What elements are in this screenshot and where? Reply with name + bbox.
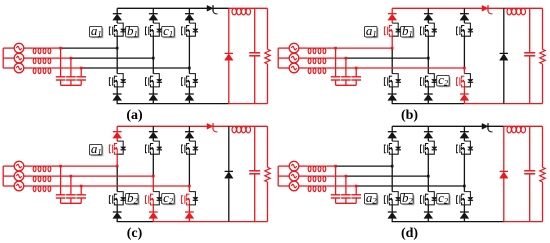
body diode of b1 (a)	[153, 23, 162, 36]
wire: leg 3 phase-to-bottom-switch (a)	[188, 68, 190, 74]
wire: leg 1 bottom stub (d)	[391, 218, 393, 221]
node: phase a to leg 1 (d)	[391, 165, 394, 168]
freewheeling diode Df (b)	[500, 8, 508, 103]
node: filter-cap tap phase b (b)	[345, 57, 348, 60]
svg-text:c2: c2	[163, 190, 174, 206]
wire: leg 1 source-to-phase (a)	[116, 36, 118, 48]
wire source-to-inductor phase a (c)	[24, 165, 33, 167]
dc-link inductor Ldc (b)	[507, 8, 526, 15]
MOSFET b1 (b)	[421, 25, 429, 37]
svg-text:a1: a1	[91, 23, 102, 39]
body diode of a1 (d)	[392, 141, 401, 154]
svg-text:(a): (a)	[126, 108, 143, 123]
wire: leg 1 bottom stub (c)	[116, 218, 118, 221]
wire: leg 2 phase-to-bottom-switch (d)	[427, 176, 429, 192]
wire phase b (c)	[52, 175, 154, 177]
wire phase c (b)	[327, 67, 465, 69]
wire: leg 1 phase-to-bottom-switch (d)	[391, 166, 393, 192]
series diode of switch a1 (c)	[113, 132, 122, 138]
wire source-to-inductor phase c (b)	[299, 67, 308, 69]
wire: leg 1 source-to-phase (c)	[116, 154, 118, 166]
wire: leg 2 top stub (b)	[427, 8, 429, 13]
wire: diode-to-mosfet stub b1 (a)	[152, 20, 154, 23]
svg-text:b2: b2	[402, 190, 414, 206]
wire phase c (d)	[327, 185, 465, 187]
wire: leg 2 bottom stub (a)	[152, 100, 154, 103]
MOSFET b1 (c)	[146, 143, 154, 155]
series diode of switch c1 (a)	[185, 14, 194, 20]
inductor Lb (a)	[32, 58, 51, 64]
series diode of switch b1 (a)	[149, 14, 158, 20]
series diode of switch a2 (b)	[388, 94, 397, 100]
node: filter-cap tap phase b (a)	[70, 57, 73, 60]
dc-link inductor Ldc (d)	[507, 126, 526, 133]
body diode of c1 (b)	[464, 23, 473, 36]
node: phase c to leg 3 (c)	[188, 185, 191, 188]
wire phase a (d)	[327, 165, 393, 167]
caption (d)	[401, 226, 418, 241]
body diode of c1 (c)	[189, 141, 198, 154]
load resistor R (b)	[540, 8, 545, 103]
wire source-to-inductor phase c (c)	[24, 185, 33, 187]
series diode of switch c2 (a)	[185, 94, 194, 100]
label box c1 (a)	[162, 23, 175, 39]
caption (b)	[401, 108, 418, 123]
wire: leg 3 top stub (a)	[188, 8, 190, 13]
svg-text:a1: a1	[366, 23, 377, 39]
load resistor R (a)	[265, 8, 270, 103]
body diode of b1 (b)	[428, 23, 437, 36]
wire: leg 1 phase-to-bottom-switch (b)	[391, 48, 393, 74]
body diode of b2 (d)	[428, 192, 437, 205]
body diode of b2 (c)	[153, 192, 162, 205]
MOSFET a1 (a)	[109, 25, 117, 37]
MOSFET c2 (d)	[457, 194, 465, 206]
inductor Lc (a)	[32, 68, 51, 74]
body diode of a2 (a)	[117, 74, 126, 87]
AC source vb (b)	[289, 53, 299, 63]
wire: leg 2 phase-to-bottom-switch (c)	[152, 176, 154, 192]
node: filter-cap tap phase b (d)	[345, 175, 348, 178]
AC source vc (c)	[14, 181, 24, 191]
filter capacitor Cb (b)	[341, 58, 351, 85]
wire: mosfet-to-diode stub a2 (b)	[391, 87, 393, 94]
output capacitor Co (a)	[249, 8, 260, 103]
series diode of switch a2 (d)	[388, 212, 397, 218]
wire: filter capacitor common node (b)	[336, 84, 357, 86]
inductor Lc (b)	[307, 68, 326, 74]
node: phase a to leg 1 (b)	[391, 47, 394, 50]
output capacitor Co (d)	[524, 126, 535, 221]
load resistor R (d)	[540, 126, 545, 221]
wire: leg 3 source-to-phase (a)	[188, 36, 190, 68]
wire: mosfet-to-diode stub c2 (d)	[463, 205, 465, 212]
wire: negative dc rail (a)	[117, 103, 268, 105]
MOSFET c1 (a)	[182, 25, 190, 37]
body diode of c2 (a)	[189, 74, 198, 87]
inductor Lb (d)	[307, 176, 326, 182]
wire: negative dc rail (d)	[392, 221, 543, 223]
node: phase b to leg 2 (b)	[427, 57, 430, 60]
body diode of b2 (b)	[428, 74, 437, 87]
MOSFET a1 (d)	[384, 143, 392, 155]
node: filter-cap tap phase a (a)	[59, 47, 62, 50]
quadrant (d) AC sources bus wire	[278, 166, 289, 186]
wire source-to-inductor phase b (a)	[24, 57, 33, 59]
wire: leg 2 source-to-phase (b)	[427, 36, 429, 58]
filter capacitor Cc (a)	[76, 68, 86, 85]
wire: leg 1 top stub (a)	[116, 8, 118, 13]
wire: leg 1 top stub (b)	[391, 8, 393, 13]
wire: positive dc rail (a)	[117, 7, 267, 9]
body diode of c2 (d)	[464, 192, 473, 205]
AC source vc (a)	[14, 63, 24, 73]
MOSFET c1 (b)	[457, 25, 465, 37]
wire: filter capacitor common node (d)	[336, 202, 357, 204]
svg-text:(c): (c)	[127, 226, 143, 241]
AC source vb (d)	[289, 171, 299, 181]
wire: mosfet-to-diode stub a2 (d)	[391, 205, 393, 212]
node: phase c to leg 3 (a)	[188, 67, 191, 70]
wire: leg 2 phase-to-bottom-switch (b)	[427, 58, 429, 74]
label box a1 (c)	[90, 141, 103, 157]
quadrant (b) AC sources bus wire	[278, 48, 289, 68]
load resistor R (c)	[265, 126, 270, 221]
wire source-to-inductor phase a (b)	[299, 47, 308, 49]
wire: diode-to-mosfet stub b1 (c)	[152, 138, 154, 141]
wire: mosfet-to-diode stub b2 (d)	[427, 205, 429, 212]
wire: diode-to-mosfet stub b1 (b)	[427, 20, 429, 23]
wire: mosfet-to-diode stub a2 (c)	[116, 205, 118, 212]
dc-side series diode D (c)	[207, 123, 218, 132]
MOSFET b2 (b)	[421, 76, 429, 88]
caption (a)	[126, 108, 143, 123]
wire: leg 2 bottom stub (c)	[152, 218, 154, 221]
MOSFET c2 (b)	[457, 76, 465, 88]
inductor Lc (d)	[307, 186, 326, 192]
wire: positive dc rail (d)	[392, 125, 542, 127]
inductor La (d)	[307, 166, 326, 172]
wire: leg 3 source-to-phase (b)	[463, 36, 465, 68]
node: phase c to leg 3 (d)	[463, 185, 466, 188]
wire: leg 3 phase-to-bottom-switch (c)	[188, 186, 190, 192]
wire: leg 1 phase-to-bottom-switch (c)	[116, 166, 118, 192]
wire: diode-to-mosfet stub a1 (c)	[116, 138, 118, 141]
wire: mosfet-to-diode stub b2 (c)	[152, 205, 154, 212]
freewheeling diode Df (a)	[225, 8, 233, 103]
wire: mosfet-to-diode stub c2 (c)	[188, 205, 190, 212]
inductor La (b)	[307, 48, 326, 54]
svg-text:b1: b1	[127, 23, 138, 39]
wire: leg 2 top stub (c)	[152, 126, 154, 131]
wire: leg 1 top stub (c)	[116, 126, 118, 131]
series diode of switch c1 (d)	[460, 132, 469, 138]
body diode of a1 (b)	[392, 23, 401, 36]
series diode of switch b2 (a)	[149, 94, 158, 100]
node: filter-cap tap phase c (b)	[355, 67, 358, 70]
filter capacitor Ca (a)	[56, 48, 66, 85]
wire: leg 3 bottom stub (a)	[188, 100, 190, 103]
wire: positive dc rail (b)	[392, 7, 542, 9]
wire: diode-to-mosfet stub c1 (c)	[188, 138, 190, 141]
wire: mosfet-to-diode stub b2 (a)	[152, 87, 154, 94]
dc-side series diode D (d)	[482, 123, 493, 132]
series diode of switch a2 (a)	[113, 94, 122, 100]
wire: leg 2 bottom stub (d)	[427, 218, 429, 221]
filter capacitor Cb (d)	[341, 176, 351, 203]
label box a2 (d)	[365, 190, 378, 206]
wire: leg 2 phase-to-bottom-switch (a)	[152, 58, 154, 74]
wire phase b (a)	[52, 57, 154, 59]
node: filter-cap tap phase c (d)	[355, 185, 358, 188]
wire: diode-to-mosfet stub c1 (a)	[188, 20, 190, 23]
node: filter-cap tap phase b (c)	[70, 175, 73, 178]
wire: diode-to-mosfet stub b1 (d)	[427, 138, 429, 141]
wire: leg 2 top stub (d)	[427, 126, 429, 131]
dc-link inductor Ldc (c)	[232, 126, 251, 133]
wire: diode-to-mosfet stub a1 (d)	[391, 138, 393, 141]
wire: filter capacitor common node (c)	[61, 202, 82, 204]
wire: negative dc rail (b)	[392, 103, 543, 105]
body diode of c2 (b)	[464, 74, 473, 87]
wire: leg 1 top stub (d)	[391, 126, 393, 131]
inductor Lb (c)	[32, 176, 51, 182]
series diode of switch c2 (c)	[185, 212, 194, 218]
filter capacitor Cc (b)	[351, 68, 361, 85]
series diode of switch b1 (d)	[424, 132, 433, 138]
wire: leg 3 phase-to-bottom-switch (d)	[463, 186, 465, 192]
wire phase a (b)	[327, 47, 393, 49]
wire: leg 3 top stub (c)	[188, 126, 190, 131]
wire source-to-inductor phase b (d)	[299, 175, 308, 177]
label box c2 (b)	[437, 72, 450, 88]
wire: leg 2 source-to-phase (a)	[152, 36, 154, 58]
MOSFET c2 (a)	[182, 76, 190, 88]
MOSFET a2 (a)	[109, 76, 117, 88]
quadrant (a) AC sources bus wire	[3, 48, 14, 68]
wire: diode-to-mosfet stub a1 (a)	[116, 20, 118, 23]
output capacitor Co (c)	[249, 126, 260, 221]
wire phase c (c)	[52, 185, 190, 187]
inductor La (c)	[32, 166, 51, 172]
wire source-to-inductor phase b (c)	[24, 175, 33, 177]
body diode of b1 (d)	[428, 141, 437, 154]
label box b2 (c)	[126, 190, 139, 206]
MOSFET b1 (d)	[421, 143, 429, 155]
MOSFET b2 (c)	[146, 194, 154, 206]
wire phase b (d)	[327, 175, 429, 177]
series diode of switch a1 (d)	[388, 132, 397, 138]
wire: leg 1 phase-to-bottom-switch (a)	[116, 48, 118, 74]
AC source vc (d)	[289, 181, 299, 191]
MOSFET a1 (c)	[109, 143, 117, 155]
node: phase b to leg 2 (c)	[152, 175, 155, 178]
label box a1 (b)	[365, 23, 378, 39]
output capacitor Co (b)	[524, 8, 535, 103]
wire: diode-to-mosfet stub c1 (d)	[463, 138, 465, 141]
body diode of c2 (c)	[189, 192, 198, 205]
dc-side series diode D (b)	[482, 5, 493, 14]
svg-text:c2: c2	[438, 72, 449, 88]
node: phase b to leg 2 (d)	[427, 175, 430, 178]
filter capacitor Cb (a)	[66, 58, 76, 85]
wire phase a (a)	[52, 47, 118, 49]
series diode of switch c1 (b)	[460, 14, 469, 20]
wire phase b (b)	[327, 57, 429, 59]
wire: leg 2 top stub (a)	[152, 8, 154, 13]
filter capacitor Cb (c)	[66, 176, 76, 203]
svg-text:a2: a2	[366, 190, 378, 206]
wire: leg 3 top stub (d)	[463, 126, 465, 131]
wire: mosfet-to-diode stub c2 (a)	[188, 87, 190, 94]
body diode of a1 (c)	[117, 141, 126, 154]
wire source-to-inductor phase a (a)	[24, 47, 33, 49]
wire: leg 3 phase-to-bottom-switch (b)	[463, 68, 465, 74]
label box c2 (c)	[162, 190, 175, 206]
label box b2 (d)	[401, 190, 414, 206]
wire phase c (a)	[52, 67, 190, 69]
node: phase a to leg 1 (c)	[116, 165, 119, 168]
MOSFET a2 (c)	[109, 194, 117, 206]
wire source-to-inductor phase c (a)	[24, 67, 33, 69]
wire: negative dc rail (c)	[117, 221, 268, 223]
wire: leg 3 source-to-phase (d)	[463, 154, 465, 186]
body diode of a2 (d)	[392, 192, 401, 205]
wire: leg 3 source-to-phase (c)	[188, 154, 190, 186]
caption (c)	[127, 226, 143, 241]
label box b1 (b)	[401, 23, 414, 39]
wire: mosfet-to-diode stub a2 (a)	[116, 87, 118, 94]
wire: diode-to-mosfet stub c1 (b)	[463, 20, 465, 23]
series diode of switch c2 (d)	[460, 212, 469, 218]
node: filter-cap tap phase a (b)	[334, 47, 337, 50]
body diode of c1 (a)	[189, 23, 198, 36]
filter capacitor Ca (d)	[331, 166, 341, 203]
series diode of switch b2 (b)	[424, 94, 433, 100]
dc-link inductor Ldc (a)	[232, 8, 251, 15]
series diode of switch b2 (c)	[149, 212, 158, 218]
inductor Lc (c)	[32, 186, 51, 192]
wire: leg 2 source-to-phase (c)	[152, 154, 154, 176]
svg-text:c1: c1	[163, 23, 173, 39]
filter capacitor Cc (d)	[351, 186, 361, 203]
wire: leg 3 bottom stub (d)	[463, 218, 465, 221]
AC source vb (a)	[14, 53, 24, 63]
inductor Lb (b)	[307, 58, 326, 64]
wire: leg 1 bottom stub (b)	[391, 100, 393, 103]
wire: leg 3 bottom stub (c)	[188, 218, 190, 221]
MOSFET c2 (c)	[182, 194, 190, 206]
AC source va (a)	[14, 43, 24, 53]
series diode of switch c2 (b)	[460, 94, 469, 100]
body diode of a2 (c)	[117, 192, 126, 205]
node: phase c to leg 3 (b)	[463, 67, 466, 70]
node: phase a to leg 1 (a)	[116, 47, 119, 50]
svg-text:a1: a1	[91, 141, 102, 157]
node: phase b to leg 2 (a)	[152, 57, 155, 60]
series diode of switch a1 (a)	[113, 14, 122, 20]
wire: leg 1 source-to-phase (b)	[391, 36, 393, 48]
MOSFET a2 (b)	[384, 76, 392, 88]
node: filter-cap tap phase c (a)	[80, 67, 83, 70]
dc-side series diode D (a)	[207, 5, 218, 14]
wire: filter capacitor common node (a)	[61, 84, 82, 86]
body diode of b1 (c)	[153, 141, 162, 154]
AC source vc (b)	[289, 63, 299, 73]
freewheeling diode Df (c)	[225, 126, 233, 221]
body diode of a1 (a)	[117, 23, 126, 36]
wire: diode-to-mosfet stub a1 (b)	[391, 20, 393, 23]
MOSFET a2 (d)	[384, 194, 392, 206]
wire source-to-inductor phase c (d)	[299, 185, 308, 187]
label box c2 (d)	[437, 190, 450, 206]
wire: leg 2 bottom stub (b)	[427, 100, 429, 103]
body diode of b2 (a)	[153, 74, 162, 87]
series diode of switch b1 (b)	[424, 14, 433, 20]
series diode of switch c1 (c)	[185, 132, 194, 138]
AC source va (d)	[289, 161, 299, 171]
MOSFET b2 (a)	[146, 76, 154, 88]
wire: mosfet-to-diode stub b2 (b)	[427, 87, 429, 94]
MOSFET c1 (c)	[182, 143, 190, 155]
svg-text:b1: b1	[402, 23, 413, 39]
svg-text:(b): (b)	[401, 108, 418, 123]
MOSFET a1 (b)	[384, 25, 392, 37]
body diode of c1 (d)	[464, 141, 473, 154]
wire: leg 1 bottom stub (a)	[116, 100, 118, 103]
svg-text:c2: c2	[438, 190, 449, 206]
quadrant (c) AC sources bus wire	[3, 166, 14, 186]
node: filter-cap tap phase a (d)	[334, 165, 337, 168]
AC source vb (c)	[14, 171, 24, 181]
wire: mosfet-to-diode stub c2 (b)	[463, 87, 465, 94]
wire source-to-inductor phase a (d)	[299, 165, 308, 167]
wire phase a (c)	[52, 165, 118, 167]
wire: leg 2 source-to-phase (d)	[427, 154, 429, 176]
wire: positive dc rail (c)	[117, 125, 267, 127]
MOSFET b2 (d)	[421, 194, 429, 206]
series diode of switch b1 (c)	[149, 132, 158, 138]
node: filter-cap tap phase a (c)	[59, 165, 62, 168]
wire: leg 1 source-to-phase (d)	[391, 154, 393, 166]
filter capacitor Ca (c)	[56, 166, 66, 203]
inductor La (a)	[32, 48, 51, 54]
series diode of switch b2 (d)	[424, 212, 433, 218]
filter capacitor Ca (b)	[331, 48, 341, 85]
wire: leg 3 top stub (b)	[463, 8, 465, 13]
label box b1 (a)	[126, 23, 139, 39]
AC source va (c)	[14, 161, 24, 171]
series diode of switch a2 (c)	[113, 212, 122, 218]
filter capacitor Cc (c)	[76, 186, 86, 203]
MOSFET b1 (a)	[146, 25, 154, 37]
node: filter-cap tap phase c (c)	[80, 185, 83, 188]
AC source va (b)	[289, 43, 299, 53]
series diode of switch a1 (b)	[388, 14, 397, 20]
freewheeling diode Df (d)	[500, 126, 508, 221]
wire source-to-inductor phase b (b)	[299, 57, 308, 59]
svg-text:(d): (d)	[401, 226, 418, 241]
body diode of a2 (b)	[392, 74, 401, 87]
svg-text:b2: b2	[127, 190, 139, 206]
label box a1 (a)	[90, 23, 103, 39]
wire: leg 3 bottom stub (b)	[463, 100, 465, 103]
MOSFET c1 (d)	[457, 143, 465, 155]
